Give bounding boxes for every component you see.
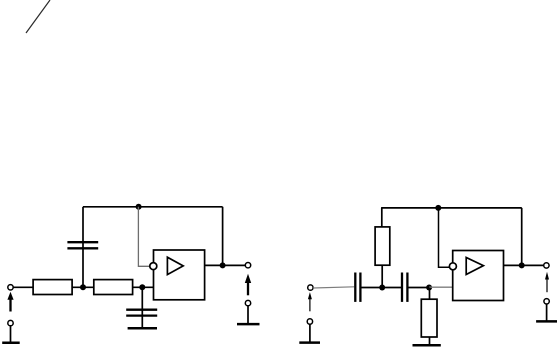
wire output <box>205 264 246 266</box>
arrow (output reference, thin) <box>545 272 549 292</box>
wire input to R1 <box>13 286 33 288</box>
wire output <box>504 264 544 266</box>
arrow (output reference) <box>245 274 251 296</box>
node top junction dot <box>136 204 142 210</box>
wire node C up to R3 <box>381 265 383 287</box>
capacitor C2 (to ground) <box>126 310 157 316</box>
op-amp U2 body <box>453 251 504 301</box>
wire feedback to inverting input <box>138 207 149 266</box>
node C junction dot <box>379 285 385 291</box>
resistor R4 (to ground, vertical) <box>421 299 437 337</box>
resistor R2 <box>94 280 133 295</box>
ground (input side) <box>299 341 320 344</box>
stray diagonal line (page crop mark) <box>26 0 50 33</box>
op-amp U2 input bubble <box>449 263 456 270</box>
wire R2 to op-amp input <box>133 286 154 288</box>
capacitor C1 (feedback) <box>67 242 98 248</box>
wire output junction up to top wire <box>222 207 224 266</box>
wire to ground <box>247 306 249 324</box>
input lower terminal circle <box>307 319 312 324</box>
resistor R1 <box>33 280 72 295</box>
node IN2 terminal circle <box>308 285 313 290</box>
node D junction dot <box>426 285 432 291</box>
wire top feedback <box>83 206 223 208</box>
node OUT2 junction dot <box>519 262 525 268</box>
wire to ground <box>10 326 12 342</box>
wire node B down to C2 <box>141 287 143 328</box>
wire output junction up to top wire <box>521 208 523 266</box>
capacitor C3 (series) <box>355 273 360 302</box>
wire C3 to node C <box>362 287 402 289</box>
output lower terminal circle <box>245 300 250 305</box>
op-amp U1 body <box>154 250 205 300</box>
output lower terminal circle <box>544 299 549 304</box>
ground (under R4) <box>413 344 441 347</box>
node OUT2 terminal circle <box>544 263 549 268</box>
arrow (input source) <box>7 292 13 312</box>
op-amp U1 triangle <box>167 257 183 274</box>
wire R1 to R2 <box>72 286 94 288</box>
node IN1 terminal circle <box>8 285 13 290</box>
wire node D down to R4 <box>429 288 431 300</box>
node OUT1 junction dot <box>220 262 226 268</box>
wire R3 up to top wire <box>381 208 383 227</box>
ground (input side) <box>2 342 20 345</box>
arrow (input source, thin) <box>308 292 312 311</box>
wire R4 to ground <box>429 337 431 345</box>
op-amp U2 triangle <box>466 258 483 275</box>
resistor R3 (feedback, vertical) <box>375 227 390 265</box>
wire node D to op-amp input <box>429 286 453 288</box>
capacitor C4 (series) <box>402 273 407 302</box>
ground (under C2) <box>128 327 157 330</box>
wire C4 to node D <box>409 287 430 289</box>
node A junction dot <box>80 284 86 290</box>
ground (output side) <box>237 323 260 326</box>
wire to ground <box>546 304 548 321</box>
node OUT1 terminal circle <box>245 263 250 268</box>
wire input to C3 <box>313 287 354 288</box>
wire node A up to C1 <box>82 207 84 287</box>
wire to ground <box>309 324 311 342</box>
node B junction dot <box>139 284 145 290</box>
wire top feedback <box>381 207 522 209</box>
input lower terminal circle <box>8 320 13 325</box>
op-amp U1 input bubble <box>150 263 157 270</box>
node top junction dot <box>435 205 441 211</box>
wire feedback to inverting input <box>439 208 450 267</box>
ground (output side) <box>536 320 557 323</box>
